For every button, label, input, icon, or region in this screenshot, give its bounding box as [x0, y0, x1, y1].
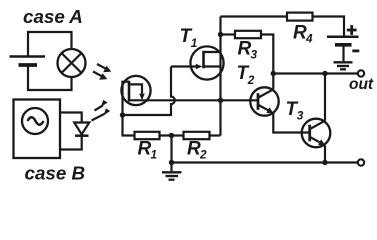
svg-text:2: 2 — [199, 148, 207, 162]
svg-text:1: 1 — [191, 36, 198, 50]
svg-text:case A: case A — [23, 6, 83, 27]
svg-text:1: 1 — [151, 148, 158, 162]
svg-text:out: out — [349, 76, 374, 93]
svg-text:case B: case B — [25, 162, 86, 183]
svg-text:3: 3 — [297, 109, 304, 123]
svg-text:2: 2 — [247, 73, 255, 87]
svg-text:3: 3 — [251, 48, 258, 62]
svg-text:R: R — [138, 139, 152, 160]
svg-text:R: R — [187, 139, 201, 160]
svg-text:R: R — [293, 22, 307, 43]
svg-text:4: 4 — [305, 31, 313, 45]
svg-text:R: R — [238, 39, 252, 60]
